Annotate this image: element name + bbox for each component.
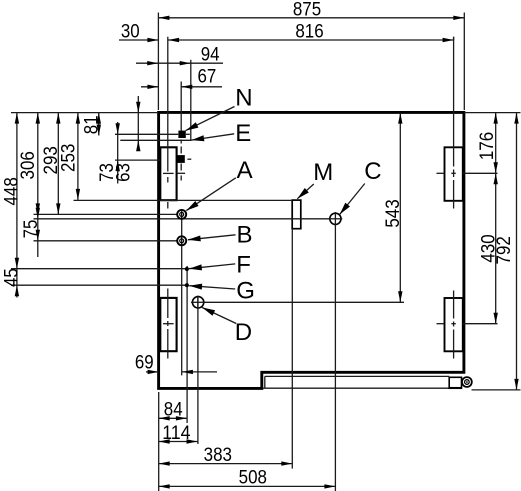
svg-text:69: 69 xyxy=(135,353,154,374)
roller wheel inner xyxy=(465,380,470,385)
F level line xyxy=(11,268,186,270)
roller wheel hub xyxy=(466,381,468,383)
dim 176 xyxy=(495,113,497,174)
dim 84 xyxy=(159,417,187,419)
svg-text:M: M xyxy=(313,159,333,186)
leader G xyxy=(189,286,235,289)
dim 63 xyxy=(137,96,139,149)
M level line xyxy=(74,199,293,201)
marker N square xyxy=(178,131,185,138)
dim 253 xyxy=(77,113,79,200)
E level line xyxy=(120,139,191,141)
svg-text:A: A xyxy=(237,157,253,184)
body left extension below xyxy=(158,392,160,491)
B level line xyxy=(34,240,178,242)
svg-text:543: 543 xyxy=(383,199,404,227)
A-B marker column xyxy=(181,209,183,375)
leader N xyxy=(186,107,235,131)
marker A bolt xyxy=(177,210,186,219)
C extension column xyxy=(334,225,336,491)
roller housing xyxy=(449,377,461,388)
dim 543 xyxy=(399,113,401,303)
M extension column xyxy=(291,229,293,469)
upper right bracket xyxy=(445,147,463,201)
svg-text:E: E xyxy=(235,120,251,147)
dim 30 xyxy=(119,39,158,41)
plinth inner left line xyxy=(264,376,266,387)
svg-text:N: N xyxy=(235,85,252,112)
svg-text:30: 30 xyxy=(121,22,140,43)
E square level line xyxy=(115,159,160,161)
dim 114 xyxy=(159,441,198,443)
C level line xyxy=(34,218,330,220)
svg-text:253: 253 xyxy=(59,144,80,172)
dim 73 xyxy=(117,122,119,184)
upper left pocket xyxy=(160,147,176,200)
dim 45 xyxy=(16,269,18,298)
leader B xyxy=(188,235,236,240)
dim 293 xyxy=(57,113,59,215)
dim 306 and 75 line xyxy=(37,113,39,257)
F-G marker column xyxy=(186,266,188,423)
svg-text:383: 383 xyxy=(204,445,232,466)
svg-text:176: 176 xyxy=(477,132,498,160)
upper bracket centerline vertical xyxy=(453,37,455,167)
svg-text:84: 84 xyxy=(164,400,183,421)
94 extension right xyxy=(190,60,192,141)
upper pocket centerline xyxy=(167,37,169,172)
N-E centerline xyxy=(180,82,182,132)
leader E xyxy=(191,134,234,140)
svg-text:792: 792 xyxy=(494,236,515,264)
roller wheel outer xyxy=(462,377,472,387)
svg-text:448: 448 xyxy=(1,177,22,205)
svg-text:63: 63 xyxy=(113,163,134,182)
marker C circle xyxy=(330,213,341,224)
dim 875 xyxy=(158,17,464,19)
dim 81 xyxy=(98,113,100,136)
dim 508 xyxy=(159,485,336,487)
leader C xyxy=(340,184,365,215)
marker F dot xyxy=(185,267,189,271)
svg-text:94: 94 xyxy=(201,44,220,65)
dim 448 xyxy=(16,113,18,269)
N level line xyxy=(115,133,178,135)
svg-text:G: G xyxy=(236,277,255,304)
svg-text:67: 67 xyxy=(198,67,217,88)
875 extension left xyxy=(157,13,159,111)
dim 383 xyxy=(159,463,293,465)
plinth inner top line xyxy=(265,375,449,377)
svg-text:816: 816 xyxy=(295,22,323,43)
A level line xyxy=(34,213,178,215)
lower bracket centerline vertical xyxy=(453,291,455,319)
D level line xyxy=(204,301,404,303)
top edge extension right xyxy=(464,112,521,114)
marker G dot xyxy=(185,283,189,287)
leader D xyxy=(202,308,236,324)
dim 67 xyxy=(141,86,158,88)
lower bracket centerline horizontal xyxy=(437,323,445,325)
svg-text:B: B xyxy=(237,221,253,248)
816 extension right xyxy=(453,37,455,40)
marker B bolt xyxy=(177,236,186,245)
svg-text:875: 875 xyxy=(293,0,321,21)
dim 306 arrows xyxy=(36,113,40,124)
dim 816 xyxy=(168,39,454,41)
cabinet rear outline xyxy=(159,112,464,388)
svg-text:45: 45 xyxy=(1,268,22,287)
svg-text:508: 508 xyxy=(239,468,267,489)
svg-text:114: 114 xyxy=(162,423,191,444)
leader F xyxy=(189,264,235,269)
marker E square xyxy=(177,155,185,163)
leader M xyxy=(297,184,314,199)
lower pocket centerline xyxy=(167,289,169,319)
dim 792 xyxy=(516,113,518,390)
upper bracket centerline horizontal xyxy=(437,172,445,174)
dim 69 xyxy=(146,371,159,373)
svg-text:D: D xyxy=(235,319,252,346)
leader A xyxy=(186,178,236,211)
svg-text:C: C xyxy=(364,158,381,185)
marker D circle xyxy=(192,297,203,308)
floor line xyxy=(472,389,521,391)
D marker column xyxy=(197,296,199,444)
lower right bracket xyxy=(445,298,463,351)
dim 75 arrows xyxy=(36,203,40,214)
svg-text:306: 306 xyxy=(18,151,39,179)
top edge extension left xyxy=(11,112,157,114)
dim 430 xyxy=(495,173,497,323)
plinth bottom line xyxy=(263,387,450,389)
svg-text:75: 75 xyxy=(21,220,42,239)
svg-text:F: F xyxy=(236,251,251,278)
connector M rectangle xyxy=(292,200,301,229)
svg-text:81: 81 xyxy=(82,115,103,134)
dim 94 xyxy=(136,62,223,64)
G level line xyxy=(11,284,186,286)
lower left pocket xyxy=(160,298,176,351)
875 extension right xyxy=(463,13,465,111)
